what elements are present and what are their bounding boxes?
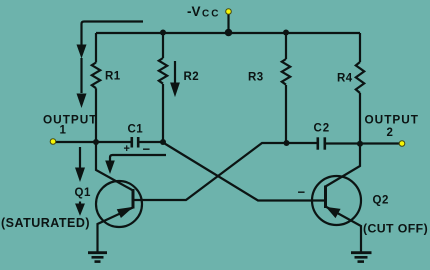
transistor Q1 [75, 142, 143, 252]
resistor R2 [159, 33, 199, 142]
svg-text:OUTPUT: OUTPUT [43, 113, 98, 127]
node output1-R1 junction [93, 139, 99, 145]
node R3-C2 junction [284, 140, 290, 146]
small current arrow below Q1 label [76, 202, 84, 215]
node rail-R2 junction [160, 30, 166, 36]
wire top rail [96, 32, 360, 34]
resistor R4 [337, 33, 364, 144]
node C1-R2 junction [160, 139, 166, 145]
svg-text:C1: C1 [128, 124, 144, 136]
wire output1 to C1 [55, 141, 132, 143]
wire cross-coupling C1 node to Q2 base [163, 143, 325, 201]
ground below Q2 [351, 253, 372, 262]
svg-text:C2: C2 [314, 123, 331, 135]
node rail-R3 junction [283, 30, 289, 36]
svg-text:-V: -V [187, 4, 201, 19]
svg-text:(SATURATED): (SATURATED) [1, 216, 90, 230]
label OUTPUT 1 [43, 113, 98, 137]
wire C2 to R4 node [325, 142, 360, 144]
output 2 terminal dot [399, 141, 405, 147]
current arrow above Q1 [76, 147, 85, 181]
svg-text:2: 2 [387, 127, 393, 139]
ground below Q1 [88, 253, 107, 262]
svg-text:Q1: Q1 [75, 187, 91, 199]
capacitor C1 [128, 124, 144, 148]
svg-text:R1: R1 [105, 71, 121, 83]
node C2-R4-output2 junction [357, 141, 363, 147]
power -Vcc stem wire [227, 13, 229, 33]
current arrow beside R2 [171, 61, 179, 96]
power -Vcc terminal dot [226, 9, 232, 15]
output 1 terminal dot [50, 139, 56, 145]
resistor R1 [92, 33, 121, 142]
wire C1 to R2 node [138, 141, 164, 143]
wire Q1 base to R3 node and C2 [134, 143, 317, 200]
label OUTPUT 2 [365, 113, 420, 140]
svg-text:R3: R3 [248, 72, 264, 84]
node rail -Vcc junction [225, 29, 233, 37]
svg-text:1: 1 [60, 125, 67, 137]
svg-text:+: + [124, 143, 130, 155]
svg-text:OUTPUT: OUTPUT [365, 113, 420, 127]
bent discharge arrow near C1 [106, 155, 166, 173]
transistor Q2 [312, 144, 389, 252]
svg-text:R2: R2 [184, 71, 200, 83]
svg-text:−: − [298, 185, 306, 200]
svg-text:CC: CC [202, 9, 220, 20]
current arrow from top rail down left side [77, 22, 143, 107]
svg-text:−: − [143, 142, 151, 157]
resistor R3 [248, 33, 290, 143]
svg-text:Q2: Q2 [373, 195, 389, 207]
capacitor C2 [314, 123, 331, 150]
wire R4 node to output2 terminal [360, 142, 400, 144]
svg-text:R4: R4 [337, 73, 353, 85]
svg-text:(CUT OFF): (CUT OFF) [363, 221, 428, 235]
label -Vcc [187, 4, 220, 20]
